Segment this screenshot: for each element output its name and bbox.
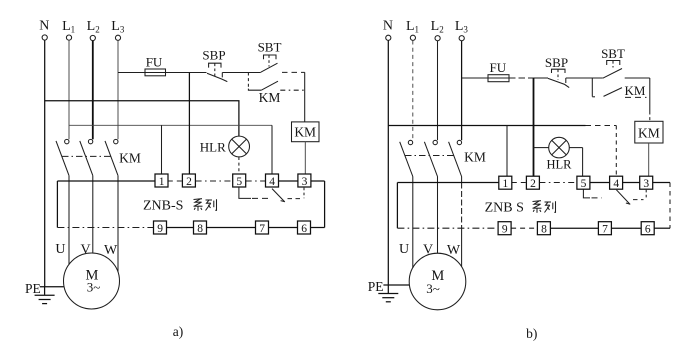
contact KM auxiliary (b) xyxy=(592,78,646,98)
wire L2 vertical upper (b) xyxy=(437,41,439,140)
svg-text:3: 3 xyxy=(643,178,649,190)
wire riser to terminal 1 (a) xyxy=(161,125,163,174)
wire coil to terminal 3 (b) xyxy=(648,143,650,176)
terminal square 6 (b) xyxy=(641,222,654,236)
wire phase U through box (b) xyxy=(412,177,414,269)
wire riser to terminal 4 dashed (b) xyxy=(615,126,617,177)
wire lamp to terminal 5 (b) xyxy=(582,148,584,177)
pushbutton SBT (b) xyxy=(601,46,625,78)
svg-text:6: 6 xyxy=(301,223,307,235)
wire riser to terminal 1 (b) xyxy=(506,126,508,177)
terminal L2 (a) xyxy=(87,19,100,41)
terminal N (a) xyxy=(39,18,49,40)
terminal square 2 (b) xyxy=(526,176,539,190)
ground symbol (a) xyxy=(35,287,55,304)
wire control rung left (b) xyxy=(462,77,509,79)
wire N vertical (b) xyxy=(387,41,389,286)
wire rung SBP to SBT (b) xyxy=(566,77,603,79)
svg-text:6: 6 xyxy=(645,224,651,236)
wire L3 vertical upper (a) xyxy=(117,41,119,140)
internal bypass contact dashed (b) xyxy=(583,189,646,204)
svg-text:9: 9 xyxy=(502,224,508,236)
svg-text:KM: KM xyxy=(259,90,281,105)
svg-text:U: U xyxy=(55,242,65,257)
svg-text:HLR: HLR xyxy=(200,139,226,154)
wire L2 vertical upper (a) xyxy=(92,41,94,140)
wire L1 vertical dashed (b) xyxy=(412,41,414,141)
wire riser to terminal 4 (a) xyxy=(271,125,273,174)
terminal square 5 (b) xyxy=(577,176,590,190)
label ZNB S series (b) xyxy=(485,201,556,216)
contactor KM main pole 1 (b) xyxy=(400,140,413,176)
wire phase U through box (a) xyxy=(68,176,70,265)
wire rung SBP to SBT (a) xyxy=(222,72,260,74)
svg-text:5: 5 xyxy=(581,178,587,190)
wire lamp to terminal 5 dashed (a) xyxy=(238,157,240,174)
ZNB-S box outline (b) xyxy=(397,183,670,229)
svg-text:7: 7 xyxy=(259,223,265,235)
terminal square 7 (b) xyxy=(598,222,611,236)
wire coil to terminal 3 (a) xyxy=(304,142,306,174)
svg-text:5: 5 xyxy=(236,176,242,188)
coil KM (a) xyxy=(292,122,320,142)
terminal square 8 (a) xyxy=(194,221,207,235)
svg-text:ZNB S: ZNB S xyxy=(485,201,524,216)
wire rung SBT to corner dashed (a) xyxy=(282,71,305,73)
contactor KM main pole 1 (a) xyxy=(56,139,69,175)
svg-text:KM: KM xyxy=(119,151,141,166)
svg-text:KM: KM xyxy=(464,150,486,165)
wire rung SBT to corner (b) xyxy=(625,77,650,79)
contactor KM main pole 3 (b) xyxy=(449,140,462,176)
wire phase W through box (a) xyxy=(117,176,119,272)
contactor KM main pole 2 (b) xyxy=(424,140,437,176)
svg-text:U: U xyxy=(399,242,409,257)
svg-text:SBP: SBP xyxy=(202,47,225,62)
terminal square 9 (b) xyxy=(498,222,511,236)
svg-text:8: 8 xyxy=(541,224,547,236)
wire N vertical (a) xyxy=(44,40,46,287)
ground symbol (b) xyxy=(378,285,398,302)
terminal square 7 (a) xyxy=(256,221,269,235)
wire control rung left (a) xyxy=(118,72,207,74)
svg-text:9: 9 xyxy=(157,223,163,235)
wire riser to terminal 2 (a) xyxy=(188,73,190,174)
svg-text:FU: FU xyxy=(489,60,506,75)
terminal square 1 (b) xyxy=(499,176,512,190)
svg-text:V: V xyxy=(81,243,91,258)
pushbutton SBP (a) xyxy=(202,47,227,81)
terminal square 1 (a) xyxy=(155,174,168,188)
svg-text:3: 3 xyxy=(302,176,308,188)
svg-text:SBP: SBP xyxy=(545,55,568,70)
terminal L1 (a) xyxy=(62,19,75,40)
svg-text:a): a) xyxy=(173,324,184,339)
terminal L1 (b) xyxy=(406,19,419,40)
svg-text:PE: PE xyxy=(25,281,41,296)
terminal N (b) xyxy=(383,19,393,41)
svg-text:2: 2 xyxy=(530,178,536,190)
linkage dash-dot (b) xyxy=(405,155,456,157)
wire corner down to coil (a) xyxy=(304,72,306,122)
wire PE to motor (a) xyxy=(40,286,64,288)
fuse FU (b) xyxy=(488,75,509,82)
terminal L3 (a) xyxy=(111,19,125,41)
svg-text:1: 1 xyxy=(503,178,509,190)
ZNB-S box outline (a) xyxy=(57,181,324,228)
svg-text:SBT: SBT xyxy=(601,46,625,61)
wire L3 vertical upper (b) xyxy=(461,41,463,140)
coil KM (b) xyxy=(635,121,663,143)
svg-text:7: 7 xyxy=(602,224,608,236)
svg-text:b): b) xyxy=(526,326,537,341)
terminal square 2 (a) xyxy=(182,174,195,188)
wire riser to terminal 2 (b) xyxy=(533,78,535,176)
wire N horizontal to lamp (a) xyxy=(45,101,239,137)
motor M (a) xyxy=(64,253,120,309)
svg-text:1: 1 xyxy=(159,176,165,188)
wire phase W through box (b) xyxy=(461,177,463,183)
wire PE to motor (b) xyxy=(383,284,409,286)
pushbutton SBT (a) xyxy=(258,39,282,72)
terminal square 9 (a) xyxy=(154,221,167,235)
svg-text:8: 8 xyxy=(197,223,203,235)
label ZNB-S series (a) xyxy=(143,199,217,214)
terminal square 5 (a) xyxy=(233,174,246,188)
terminal square 3 (a) xyxy=(298,174,311,188)
terminal square 6 (a) xyxy=(298,221,311,235)
lamp HLR (b) xyxy=(534,137,583,158)
svg-text:2: 2 xyxy=(186,176,192,188)
wire corner down to coil (b) xyxy=(649,78,651,112)
wire rung FU to riser dashed (b) xyxy=(509,77,534,79)
terminal square 4 (b) xyxy=(610,176,623,190)
svg-text:FU: FU xyxy=(146,55,163,70)
svg-text:KM: KM xyxy=(294,125,316,140)
svg-text:3~: 3~ xyxy=(426,281,440,296)
svg-text:N: N xyxy=(39,18,49,33)
contact KM auxiliary (a) xyxy=(248,73,304,106)
wire rung riser to SBP (b) xyxy=(534,77,549,79)
motor M (b) xyxy=(409,253,466,310)
svg-text:ZNB-S: ZNB-S xyxy=(143,199,183,214)
fuse FU (a) xyxy=(145,69,166,76)
terminal square 8 (b) xyxy=(537,222,550,236)
terminal L2 (b) xyxy=(431,19,444,41)
wire phase V through box (b) xyxy=(437,177,439,254)
svg-text:4: 4 xyxy=(613,178,619,190)
terminal L3 (b) xyxy=(455,19,469,41)
wire L1 vertical upper (a) xyxy=(68,40,70,139)
wire N horizontal dashed tail (b) xyxy=(586,125,617,127)
linkage dash-dot (a) xyxy=(62,155,113,157)
svg-text:KM: KM xyxy=(638,126,660,141)
internal bypass contact dashed (a) xyxy=(239,187,304,202)
svg-text:N: N xyxy=(383,19,393,34)
wire phase V through box (a) xyxy=(92,176,94,254)
svg-text:PE: PE xyxy=(368,279,384,294)
svg-text:3~: 3~ xyxy=(87,280,101,295)
contactor KM main pole 3 (a) xyxy=(105,139,118,175)
svg-text:W: W xyxy=(104,243,118,258)
svg-text:4: 4 xyxy=(269,176,275,188)
wire N horizontal (b) xyxy=(388,125,585,127)
svg-text:HLR: HLR xyxy=(547,158,573,172)
contactor KM main pole 2 (a) xyxy=(80,139,93,175)
wire L1 horizontal (a) xyxy=(69,124,272,126)
terminal square 3 (b) xyxy=(640,176,653,190)
lamp HLR (a) xyxy=(229,136,250,157)
pushbutton SBP (b) xyxy=(545,55,569,88)
svg-text:SBT: SBT xyxy=(258,39,282,54)
svg-text:KM: KM xyxy=(625,83,646,98)
terminal square 4 (a) xyxy=(266,174,279,188)
